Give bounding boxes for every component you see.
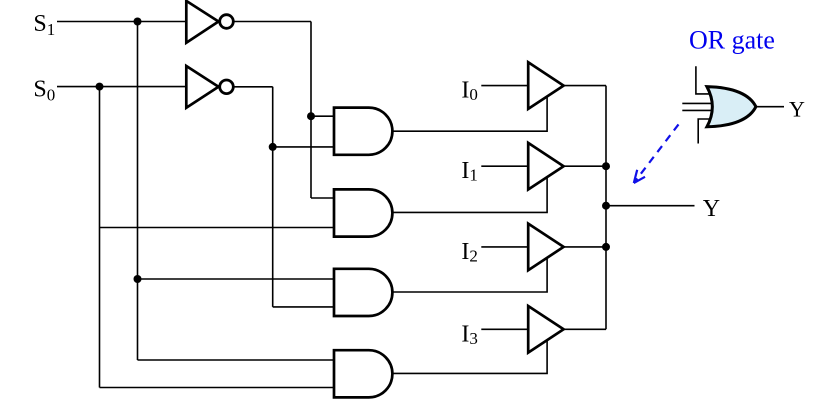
buffer B4 (I3) <box>528 306 563 353</box>
wire output bus vertical <box>605 86 607 330</box>
svg-text:OR gate: OR gate <box>689 26 775 55</box>
svg-text:S1: S1 <box>33 11 55 39</box>
wire OR gate lower input <box>698 119 713 144</box>
wire S1 input horizontal <box>57 21 190 23</box>
wire S1bar vertical <box>310 22 312 199</box>
wire S0bar vertical <box>272 87 274 307</box>
wire AND1 output to buffer1 enable <box>390 93 547 131</box>
or-gate symbol <box>707 87 756 127</box>
svg-text:I1: I1 <box>461 158 478 185</box>
junction dot bus at Y output <box>602 202 610 210</box>
inverter NOT1 bubble <box>220 15 234 29</box>
svg-text:I0: I0 <box>461 78 478 105</box>
wire S1 to AND3 upper input <box>138 278 341 280</box>
wire AND2 output to buffer2 enable <box>390 173 547 212</box>
wire S0 to AND2 lower input <box>100 227 341 229</box>
wire OR gate middle input 1 <box>682 102 716 104</box>
wire S1 vertical drop <box>137 22 139 361</box>
and-gate AND2 <box>334 189 392 236</box>
svg-text:S0: S0 <box>33 77 55 105</box>
wire S1bar to AND1 upper input <box>311 115 340 117</box>
junction dot S1 at AND3 upper input <box>134 275 142 283</box>
buffer B3 (I2) <box>528 224 563 271</box>
wire AND3 output to buffer3 enable <box>390 254 547 292</box>
svg-text:I3: I3 <box>461 321 478 348</box>
and-gate AND1 <box>334 108 392 155</box>
wire S0bar to AND3 lower input <box>273 306 340 308</box>
wire S0 to AND4 lower input <box>100 387 341 389</box>
wire I1 input <box>481 165 530 167</box>
inverter NOT1 triangle <box>186 1 218 43</box>
wire S0bar to AND1 lower input <box>273 146 340 148</box>
wire NOT2 output horizontal <box>231 86 273 88</box>
wire buffer2 output <box>564 165 606 167</box>
wire I0 input <box>481 85 530 87</box>
svg-text:Y: Y <box>703 196 720 222</box>
and-gate AND4 <box>334 350 392 397</box>
wire buffer3 output <box>564 246 606 248</box>
annotation arrow (blue dashed) <box>634 124 679 183</box>
junction dot S1bar at AND1 upper input <box>307 112 315 120</box>
junction dot S0 <box>96 83 104 91</box>
inverter NOT2 bubble <box>220 80 234 94</box>
buffer B1 (I0) <box>528 62 563 109</box>
wire buffer1 output <box>564 85 606 87</box>
wire NOT1 output horizontal <box>231 21 311 23</box>
wire S0 input horizontal <box>57 86 190 88</box>
wire AND4 output to buffer4 enable <box>390 336 547 373</box>
junction dot S1 <box>134 18 142 26</box>
wire OR gate output <box>756 106 784 108</box>
wire output Y horizontal <box>606 205 695 207</box>
wire buffer4 output <box>564 328 606 330</box>
wire S1 to AND4 upper input <box>138 359 341 361</box>
wire OR gate upper input <box>696 66 714 94</box>
junction dot bus at buffer2 output <box>602 162 610 170</box>
wire I2 input <box>481 246 530 248</box>
junction dot S0bar at AND1 lower input <box>269 143 277 151</box>
inverter NOT2 triangle <box>186 66 218 108</box>
and-gate AND3 <box>334 269 392 316</box>
wire S0 vertical drop <box>99 87 101 388</box>
junction dot bus at buffer3 output <box>602 243 610 251</box>
buffer B2 (I1) <box>528 143 563 190</box>
svg-text:I2: I2 <box>461 239 478 266</box>
wire I3 input <box>481 328 530 330</box>
wire S1bar to AND2 upper input <box>311 197 340 199</box>
wire OR gate middle input 2 <box>682 109 716 111</box>
svg-text:Y: Y <box>789 96 805 121</box>
